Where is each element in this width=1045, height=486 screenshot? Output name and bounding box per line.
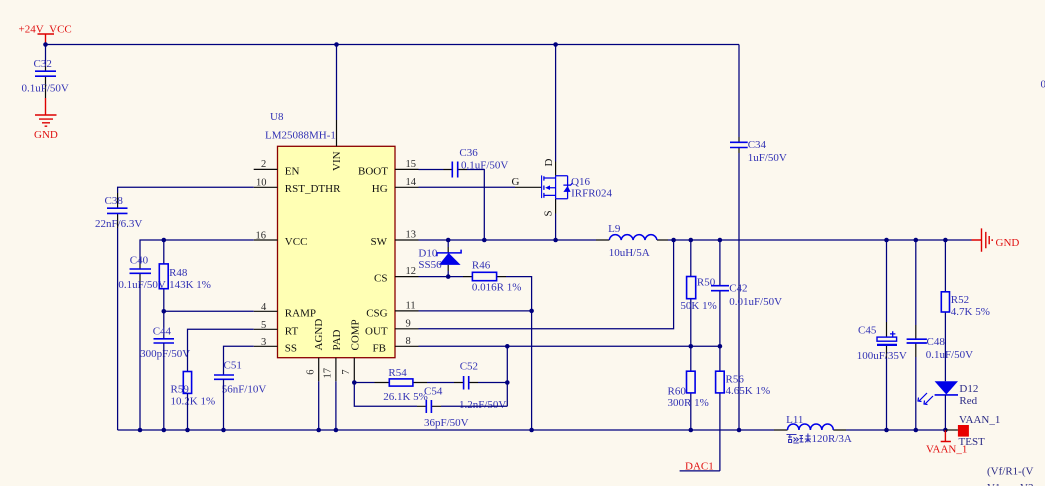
wire: C54 to FB riser (441, 405, 507, 407)
svg-text:SS: SS (285, 343, 297, 355)
pin 3 SS (254, 337, 297, 355)
node: rail/PAD (334, 428, 339, 433)
svg-text:120R/3A: 120R/3A (812, 433, 852, 445)
capacitor C44 (140, 311, 190, 430)
LED D12 Red (918, 381, 978, 430)
svg-text:VAAN_1: VAAN_1 (959, 414, 1000, 426)
resistor R59 (171, 372, 216, 431)
resistor R48 (159, 240, 211, 311)
svg-text:CS: CS (374, 272, 387, 284)
resistor R60 (668, 346, 709, 430)
resistor R56 (716, 346, 771, 471)
port DAC1 (680, 460, 720, 472)
svg-text:143K 1%: 143K 1% (169, 279, 211, 291)
pin 8 FB (373, 336, 419, 355)
svg-text:0.1uF/50V: 0.1uF/50V (926, 349, 973, 361)
node: VCC/R48 junction (162, 238, 167, 243)
wire: R54 to C52 (427, 382, 454, 384)
svg-text:D: D (543, 159, 555, 167)
inductor L9 (596, 223, 668, 259)
svg-text:2: 2 (261, 159, 266, 170)
svg-text:OUT: OUT (365, 326, 388, 338)
node: C52/FB riser junction (505, 380, 510, 385)
pin 17 PAD (bottom) (323, 329, 344, 381)
wire: RST_DTHR to C38 (118, 187, 254, 193)
svg-text:3: 3 (261, 337, 266, 348)
svg-text:EN: EN (285, 166, 300, 178)
node: rail/C51 (221, 428, 226, 433)
svg-text:RT: RT (285, 326, 299, 338)
svg-text:C48: C48 (927, 336, 946, 348)
svg-text:(Vf/R1-(V: (Vf/R1-(V (987, 466, 1033, 478)
wire: CSG pin to riser (419, 310, 532, 312)
svg-text:C44: C44 (153, 325, 172, 337)
inductor L11 (774, 414, 852, 445)
svg-text:TEST: TEST (959, 436, 986, 448)
capacitor C34 (730, 45, 787, 431)
svg-text:DAC1: DAC1 (685, 460, 714, 472)
svg-text:RST_DTHR: RST_DTHR (285, 183, 341, 195)
svg-text:7: 7 (341, 370, 352, 375)
svg-text:100uF/35V: 100uF/35V (857, 350, 907, 362)
node: CSG riser junction (529, 309, 534, 314)
wire: output rail right of L9 (668, 239, 972, 241)
pin 16 VCC (254, 230, 308, 248)
capacitor C52 (454, 360, 506, 411)
node: rail/C45 junction (884, 238, 889, 243)
svg-text:HG: HG (372, 183, 388, 195)
svg-text:Red: Red (959, 395, 977, 407)
label: 磁珠 (ferrite bead) drawn glyphs (787, 434, 812, 444)
wire: AGND pin to rail (318, 381, 320, 430)
svg-text:12: 12 (406, 266, 417, 277)
svg-text:SW: SW (371, 236, 388, 248)
svg-text:R54: R54 (388, 367, 407, 379)
svg-text:VCC: VCC (285, 236, 308, 248)
capacitor C45 (polarized) (857, 240, 907, 430)
wire: OUT pin to SW rail riser (419, 240, 674, 329)
svg-text:C45: C45 (858, 325, 877, 337)
svg-text:26.1K 5%: 26.1K 5% (383, 391, 428, 403)
pin 7 COMP (bottom) (341, 319, 362, 381)
pin 1 VIN (top) (331, 45, 343, 172)
node: FB/C42-R56 junction (718, 344, 723, 349)
svg-text:50K 1%: 50K 1% (680, 300, 716, 312)
wire: SW pin to L9 (419, 239, 597, 241)
svg-text:BOOT: BOOT (358, 166, 388, 178)
capacitor C38 (95, 193, 142, 430)
svg-text:0.1uF/50V: 0.1uF/50V (22, 83, 69, 95)
resistor R50 (680, 240, 716, 346)
node: rail/AGND (316, 428, 321, 433)
svg-text:C54: C54 (424, 385, 443, 397)
svg-text:15: 15 (406, 159, 417, 170)
node: rail/R60 (689, 428, 694, 433)
node: rail/C34 (737, 428, 742, 433)
svg-text:L9: L9 (608, 223, 621, 235)
svg-text:10.2K 1%: 10.2K 1% (171, 395, 216, 407)
svg-text:FB: FB (373, 343, 386, 355)
node: rail/C45 bottom (884, 428, 889, 433)
svg-text:C52: C52 (460, 360, 478, 372)
ground GND (right) (972, 228, 1020, 251)
svg-text:10: 10 (256, 177, 267, 188)
capacitor C54 (417, 385, 469, 429)
pin 13 SW (371, 230, 419, 248)
svg-text:S: S (543, 210, 555, 216)
svg-text:IRFR024: IRFR024 (571, 187, 612, 199)
node: rail/C44 (162, 428, 167, 433)
node: top rail / VIN junction (334, 42, 339, 47)
pin 15 BOOT (358, 159, 419, 178)
node: rail/C40 (138, 428, 143, 433)
svg-text:1.2nF/50V: 1.2nF/50V (459, 399, 506, 411)
wire: COMP node (354, 381, 374, 382)
svg-text:4: 4 (261, 302, 267, 313)
node: rail/R50 junction (689, 238, 694, 243)
svg-text:SS56: SS56 (418, 259, 442, 271)
svg-text:6: 6 (306, 370, 317, 375)
node: rail/R46 riser (529, 428, 534, 433)
svg-text:L11: L11 (786, 414, 803, 426)
svg-text:36pF/50V: 36pF/50V (424, 417, 469, 429)
pin 12 CS (374, 266, 419, 284)
wire: PAD pin to rail (335, 381, 337, 430)
wire: C36 to SW node (467, 170, 484, 241)
wire: HG to Q16 gate (419, 186, 516, 188)
svg-text:14: 14 (406, 177, 417, 188)
diode D10 SS56 (418, 240, 461, 277)
capacitor C42 (711, 240, 782, 346)
wire: CS pin to R46 (419, 276, 464, 278)
svg-text:C40: C40 (130, 255, 149, 267)
capacitor C32 (22, 45, 69, 99)
pin 2 EN (254, 159, 300, 178)
wire: VCC to C40 (140, 240, 254, 264)
wire: C52 to FB riser (478, 346, 507, 406)
pin 10 RST_DTHR (254, 177, 341, 195)
svg-text:C36: C36 (459, 147, 478, 159)
node: CS/D10 junction (446, 274, 451, 279)
wire: SS pin to C51 (224, 346, 254, 375)
capacitor C40 (118, 255, 165, 431)
svg-text:22nF/6.3V: 22nF/6.3V (95, 218, 142, 230)
svg-text:C38: C38 (105, 195, 124, 207)
resistor R46 (463, 259, 521, 293)
node: FB/C52 junction (505, 344, 510, 349)
svg-text:1uF/50V: 1uF/50V (748, 152, 787, 164)
svg-text:VIN: VIN (331, 151, 343, 171)
svg-text:9: 9 (406, 318, 411, 329)
svg-text:V3: V3 (1020, 482, 1034, 486)
node: top rail / Q16 drain junction (553, 42, 558, 47)
svg-text:C51: C51 (224, 359, 242, 371)
svg-text:AGND: AGND (313, 319, 325, 351)
svg-text:CSG: CSG (366, 308, 387, 320)
svg-text:13: 13 (406, 230, 417, 241)
svg-text:R52: R52 (951, 294, 969, 306)
svg-text:G: G (512, 176, 520, 188)
pin 9 OUT (365, 318, 419, 337)
node: rail/C48 bottom (914, 428, 919, 433)
svg-text:V1: V1 (987, 482, 1000, 486)
pin 11 CSG (366, 301, 418, 320)
pin 14 HG (372, 177, 419, 195)
svg-text:GND: GND (34, 129, 58, 141)
svg-text:R50: R50 (697, 277, 716, 289)
svg-text:C34: C34 (748, 139, 767, 151)
svg-text:R60: R60 (668, 386, 687, 398)
node: FB/R50-R60 junction (689, 344, 694, 349)
svg-text:RAMP: RAMP (285, 308, 316, 320)
node: rail/D12 bottom (943, 428, 948, 433)
op-amp U8 LM25088MH-1 body (265, 111, 395, 358)
svg-text:4.65K 1%: 4.65K 1% (726, 385, 771, 397)
svg-text:D10: D10 (418, 248, 437, 260)
node: rail/OUT riser junction (671, 238, 676, 243)
svg-text:56nF/10V: 56nF/10V (222, 384, 267, 396)
svg-text:10uH/5A: 10uH/5A (609, 247, 650, 259)
wire: FB pin to right (419, 345, 720, 347)
power port VAAN_1 (red) (926, 430, 967, 455)
wire: rail right of L11 (846, 429, 945, 431)
wire: +24V top rail (46, 44, 740, 46)
svg-text:R46: R46 (472, 259, 491, 271)
pin 4 RAMP (254, 302, 316, 320)
svg-text:COMP: COMP (350, 319, 362, 350)
pin 6 AGND (bottom) (306, 319, 326, 382)
wire: BOOT to C36 (419, 169, 444, 171)
node: RAMP/R48/C44 junction (162, 309, 167, 314)
node: rail/C42 junction (718, 238, 723, 243)
svg-text:0.016R 1%: 0.016R 1% (472, 281, 522, 293)
node: SW/D10 junction (446, 238, 451, 243)
node: SW/C36 junction (482, 238, 487, 243)
pin 5 RT (254, 320, 299, 338)
wire: RAMP pin to R48/C44 (164, 310, 254, 312)
svg-text:300pF/50V: 300pF/50V (140, 348, 190, 360)
wire: R46 to CSG riser (506, 277, 532, 430)
svg-text:300R 1%: 300R 1% (668, 397, 709, 409)
ground GND (left) (34, 98, 58, 141)
svg-text:4.7K 5%: 4.7K 5% (951, 306, 990, 318)
node: SW/Q16 source junction (553, 238, 558, 243)
svg-text:R48: R48 (169, 267, 188, 279)
node: COMP junction (352, 380, 357, 385)
wire: bottom VAAN rail (118, 429, 774, 431)
svg-text:PAD: PAD (331, 329, 343, 350)
svg-text:C42: C42 (729, 282, 747, 294)
svg-text:16: 16 (256, 230, 267, 241)
svg-text:GND: GND (996, 237, 1020, 249)
svg-text:17: 17 (323, 368, 334, 379)
test point TEST / VAAN_1 (945, 414, 1000, 448)
svg-text:0.01uF/50V: 0.01uF/50V (729, 296, 782, 308)
power port +24V_VCC (19, 24, 72, 45)
resistor R52 (941, 240, 990, 381)
svg-text:U8: U8 (270, 111, 284, 123)
node: rail/R59 (185, 428, 190, 433)
capacitor C51 (214, 359, 266, 430)
svg-text:11: 11 (406, 301, 416, 312)
wire: RT pin to R59 (188, 329, 254, 371)
svg-text:D12: D12 (959, 383, 978, 395)
capacitor C48 (907, 240, 974, 430)
node: top rail / C32 junction (43, 42, 48, 47)
svg-text:R56: R56 (726, 373, 745, 385)
svg-text:8: 8 (406, 336, 411, 347)
node: rail/C48 junction (914, 238, 919, 243)
svg-text:5: 5 (261, 320, 266, 331)
node: rail/R52 junction (943, 238, 948, 243)
svg-text:LM25088MH-1: LM25088MH-1 (265, 130, 336, 142)
capacitor C36 (444, 147, 509, 178)
resistor R54 (375, 367, 428, 403)
svg-text:0.: 0. (1041, 79, 1045, 91)
svg-text:C32: C32 (34, 58, 52, 70)
svg-text:R59: R59 (171, 383, 190, 395)
transistor Q16 IRFR024 (512, 45, 613, 241)
wire: COMP to C54 branch (354, 383, 417, 407)
